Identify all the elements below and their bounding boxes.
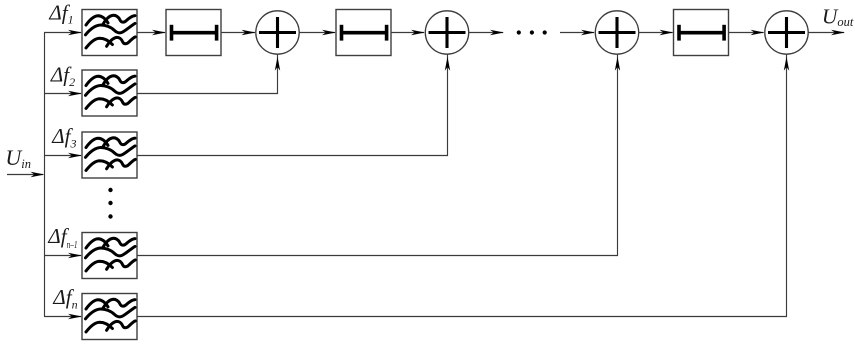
arrowhead into filter n	[68, 314, 82, 319]
arrowhead into summer 2	[411, 30, 425, 35]
ellipsis vertical dots	[108, 188, 112, 219]
wire: input arrow line	[7, 174, 43, 176]
delay block 3	[674, 10, 729, 56]
filter Δfn-1 box	[82, 233, 137, 279]
wire: bus to filter 2	[44, 93, 81, 95]
ellipsis horizontal dots	[517, 30, 547, 34]
arrowhead into bus (input)	[31, 172, 45, 177]
arrowhead up into summer 4	[784, 57, 789, 71]
wire: bus to filter 1	[44, 32, 81, 34]
delay block 2	[336, 10, 391, 56]
wire: filter 2 output to summer 1	[137, 55, 278, 94]
arrowhead into delay 3	[660, 30, 674, 35]
wire: filter 3 output to summer 2	[137, 55, 448, 156]
summer U1	[256, 11, 299, 54]
summer U4	[765, 11, 808, 54]
wire: filter 1 to delay 1	[137, 32, 165, 34]
arrowhead into delay 1	[152, 30, 166, 35]
arrowhead into summer 3	[581, 30, 595, 35]
arrowhead up into summer 1	[275, 57, 280, 71]
wire: filter n-1 output to summer 3	[137, 55, 618, 256]
arrowhead into summer 1	[242, 30, 256, 35]
filter Δf2 box	[82, 70, 137, 116]
wire: summer 3 to delay 3	[639, 32, 673, 34]
arrowhead into filter 3	[68, 153, 82, 158]
wire: bus to filter n	[44, 316, 81, 318]
filter Δf1 box	[82, 10, 137, 56]
filter Δf3 box	[82, 132, 137, 178]
arrowhead up into summer 3	[615, 57, 620, 71]
summer U3	[595, 11, 638, 54]
wire: ellipsis to summer 3	[560, 32, 594, 34]
wire: summer 4 to output	[808, 32, 844, 34]
wire: delay 1 to summer 1	[221, 32, 255, 34]
summer U2	[425, 11, 468, 54]
arrowhead into delay 2	[322, 30, 336, 35]
arrowhead before ellipsis	[490, 30, 504, 35]
delay block 1	[166, 10, 221, 56]
wire: input bus vertical	[44, 33, 46, 317]
wire: filter n output to summer 4	[137, 55, 787, 317]
wire: delay 3 to summer 4	[729, 32, 764, 34]
wire: bus to filter 3	[44, 155, 81, 157]
arrowhead up into summer 2	[445, 57, 450, 71]
arrowhead into filter 1	[68, 30, 82, 35]
wire: delay 2 to summer 2	[391, 32, 424, 34]
wire: summer 2 to ellipsis	[469, 32, 503, 34]
filter Δfn box	[82, 294, 137, 340]
arrowhead into filter 2	[68, 91, 82, 96]
arrowhead into summer 4	[751, 30, 765, 35]
arrowhead into filter n-1	[68, 253, 82, 258]
arrowhead output	[831, 30, 845, 35]
wire: summer 1 to delay 2	[299, 32, 335, 34]
wire: bus to filter n-1	[44, 255, 81, 257]
